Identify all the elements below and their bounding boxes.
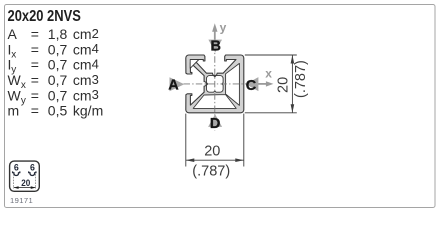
centerline vertical: [214, 44, 216, 131]
svg-text:6: 6: [14, 162, 19, 172]
svg-text:m: m: [8, 103, 20, 119]
svg-text:A: A: [8, 26, 18, 42]
dimension right 20 (.787): [245, 55, 297, 113]
svg-text:cm: cm: [73, 41, 92, 57]
svg-text:0,5: 0,5: [48, 103, 68, 119]
side label A: [170, 77, 185, 91]
centerline horizontal: [184, 83, 263, 85]
dimension bottom 20 (.787): [186, 114, 244, 167]
svg-text:cm: cm: [73, 72, 92, 88]
side label B: [208, 40, 222, 53]
svg-text:0,7: 0,7: [48, 87, 68, 103]
svg-text:4: 4: [92, 41, 99, 56]
svg-text:3: 3: [92, 87, 99, 102]
side label D: [208, 114, 222, 127]
svg-text:y: y: [21, 95, 26, 106]
svg-text:=: =: [31, 103, 39, 119]
properties table: [8, 26, 104, 119]
svg-text:20: 20: [204, 144, 220, 160]
svg-text:kg/m: kg/m: [73, 103, 103, 119]
svg-text:x: x: [11, 49, 16, 60]
svg-text:W: W: [8, 87, 22, 103]
svg-text:y: y: [220, 21, 227, 35]
svg-text:20x20 2NVS: 20x20 2NVS: [8, 8, 81, 25]
y axis arrow: [214, 32, 216, 49]
svg-text:=: =: [31, 87, 39, 103]
svg-text:20: 20: [21, 178, 30, 189]
svg-text:19171: 19171: [10, 196, 33, 205]
svg-text:x: x: [265, 66, 272, 80]
svg-text:0,7: 0,7: [48, 57, 68, 73]
svg-text:W: W: [8, 72, 22, 88]
svg-text:A: A: [168, 78, 179, 94]
svg-text:=: =: [31, 72, 39, 88]
svg-text:C: C: [246, 78, 257, 94]
svg-text:2: 2: [92, 26, 99, 41]
svg-text:6: 6: [30, 162, 35, 172]
svg-text:cm: cm: [73, 57, 92, 73]
side label C: [246, 77, 259, 91]
svg-text:D: D: [210, 116, 220, 132]
groove/size pictogram: [10, 161, 40, 191]
svg-text:0,7: 0,7: [48, 72, 68, 88]
profile 20x20 cross-section: [186, 55, 244, 113]
svg-text:(.787): (.787): [293, 60, 309, 98]
x axis arrow: [254, 83, 268, 85]
svg-text:20: 20: [276, 77, 292, 93]
svg-text:3: 3: [92, 72, 99, 87]
svg-text:=: =: [31, 26, 39, 42]
svg-text:=: =: [31, 57, 39, 73]
svg-text:(.787): (.787): [192, 163, 230, 179]
svg-text:cm: cm: [73, 87, 92, 103]
svg-text:1,8: 1,8: [48, 26, 68, 42]
svg-text:0,7: 0,7: [48, 41, 68, 57]
svg-text:4: 4: [92, 57, 99, 72]
svg-text:x: x: [21, 80, 26, 91]
svg-text:=: =: [31, 41, 39, 57]
inner cavities and bore: [190, 60, 239, 109]
svg-text:cm: cm: [73, 26, 92, 42]
svg-text:B: B: [211, 38, 221, 54]
